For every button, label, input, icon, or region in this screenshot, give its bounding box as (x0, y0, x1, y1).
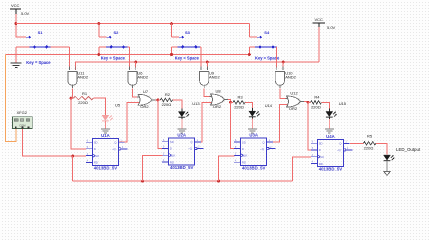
svg-text:RD: RD (170, 160, 174, 164)
instrument XFG2 (13, 117, 33, 129)
wire CLK down to bottom rail (72, 156, 74, 181)
wire bottom clock rail (73, 180, 293, 182)
OR gate U8 (211, 94, 225, 105)
flip-flop U3A 4013BD (234, 138, 276, 165)
svg-text:AND2: AND2 (77, 75, 88, 80)
wire rail C to AND input 2 (U9) (206, 61, 209, 64)
wire CLK riser U3A (217, 180, 220, 183)
svg-text:VCC: VCC (315, 17, 324, 22)
wire rail A top (16, 23, 250, 25)
wire D feed stage 3 (231, 102, 236, 148)
svg-text:U12: U12 (290, 91, 298, 96)
svg-text:RD: RD (94, 161, 98, 165)
wire S3 throw to AND input (200, 47, 202, 68)
resistor R5 (361, 142, 364, 144)
flip-flop U4A 4013BD (311, 140, 353, 167)
svg-text:Q: Q (339, 142, 342, 146)
AND gate U10 (275, 72, 284, 86)
wire LED U13 to ground (181, 117, 183, 119)
svg-text:Q: Q (262, 140, 265, 144)
switch S2 (97, 22, 100, 25)
wire CLK riser U4A (292, 157, 311, 181)
svg-text:OR2: OR2 (140, 104, 149, 109)
wire LED to arrow ground (386, 161, 388, 172)
svg-text:U1A: U1A (101, 133, 110, 138)
AND gate U6 (128, 72, 137, 86)
svg-text:S4: S4 (264, 30, 270, 35)
svg-text:D: D (94, 147, 96, 151)
wire U4A Q to R5 (350, 142, 361, 144)
LED U5 (lit) (102, 115, 113, 121)
resistor R4 (308, 101, 311, 103)
svg-text:Key = Space: Key = Space (101, 55, 126, 60)
resistor R1 (71, 97, 74, 99)
svg-text:SD: SD (170, 140, 174, 144)
wire Q feedback to OR input 2 (U7) (118, 103, 140, 143)
wire LED U15 to ground (328, 117, 330, 119)
wire VCC right drop (318, 27, 320, 62)
wire AND 3 output to OR input 1 (203, 84, 205, 88)
svg-text:~Q: ~Q (188, 147, 193, 151)
wire rail C to AND input 2 (U10) (282, 61, 285, 64)
svg-text:SD: SD (94, 141, 98, 145)
wire OR U8 output (225, 99, 229, 101)
wire D feed stage 2 (158, 100, 163, 148)
svg-text:AND2: AND2 (137, 75, 148, 80)
wire U11 output (72, 84, 74, 88)
svg-text:~Q: ~Q (112, 147, 117, 151)
wire rail B (switch poles) (5, 54, 249, 56)
switch S4 (248, 24, 250, 38)
flip-flop U2A 4013BD (162, 138, 204, 165)
switch S3 (170, 22, 173, 25)
wire R3 to LED U14 (248, 102, 253, 108)
svg-text:D: D (319, 148, 321, 152)
wire Q feedback to OR input 2 (U8) (195, 102, 213, 141)
svg-text:SD: SD (242, 140, 246, 144)
wire S4 throw to AND input (276, 47, 278, 68)
wire S4 pole to rail B (248, 47, 250, 55)
wire D feed U1A (71, 98, 86, 149)
wire OR U12 output (301, 101, 305, 103)
svg-text:Key = Space: Key = Space (175, 55, 200, 60)
junction rail A start (14, 22, 17, 25)
svg-text:U2A: U2A (177, 132, 186, 137)
svg-text:220Ω: 220Ω (364, 146, 374, 151)
svg-text:R2: R2 (165, 92, 171, 97)
node A (R1 left junction) (70, 97, 73, 100)
switch S1 (16, 36, 27, 38)
svg-text:5.0V: 5.0V (21, 11, 30, 16)
svg-text:R4: R4 (314, 95, 320, 100)
wire rail C (enable) (76, 62, 319, 70)
resistor R3 (231, 101, 234, 103)
svg-text:SD: SD (319, 142, 323, 146)
svg-text:AND2: AND2 (285, 75, 296, 80)
wire R1 to LED U5 (96, 98, 105, 115)
wire S1 throw to AND input (68, 47, 70, 68)
svg-text:Q: Q (190, 140, 193, 144)
svg-text:U13: U13 (192, 101, 200, 106)
wire CLK riser U2A (141, 180, 144, 183)
LED U15 (326, 112, 337, 118)
svg-text:220Ω: 220Ω (78, 100, 88, 105)
svg-text:D: D (170, 147, 172, 151)
wire AND 4 output to OR input 1 (279, 84, 281, 88)
ground S1 (11, 63, 22, 67)
svg-text:Key = Space: Key = Space (26, 60, 51, 65)
svg-text:U8: U8 (215, 89, 221, 94)
svg-text:R1: R1 (82, 91, 88, 96)
wire XFG2 plus to rail B (orange) (5, 55, 16, 142)
node D-feed junction (stage 2) (156, 98, 159, 101)
ground (stage 2 LED) (177, 128, 186, 130)
svg-text:4013BD_5V: 4013BD_5V (170, 165, 194, 170)
svg-text:4013BD_5V: 4013BD_5V (242, 165, 266, 170)
svg-text:XFG2: XFG2 (17, 110, 28, 115)
node D-feed junction (stage 3) (229, 101, 232, 104)
ground (stage 1 LED) (101, 128, 110, 130)
wire AND 2 output to OR input 1 (132, 84, 134, 88)
svg-text:D: D (242, 147, 244, 151)
svg-text:U15: U15 (339, 101, 347, 106)
svg-text:LED_Output: LED_Output (396, 147, 421, 152)
wire S2 throw to AND input (128, 47, 130, 68)
wire XFG2 output to U1A CLK (22, 129, 86, 156)
wire S1 pole to ground (15, 47, 17, 63)
svg-text:220Ω: 220Ω (234, 104, 244, 109)
svg-text:220Ω: 220Ω (162, 102, 172, 107)
svg-text:R3: R3 (237, 95, 243, 100)
wire D feed stage 4 (308, 102, 312, 150)
svg-text:S3: S3 (185, 30, 191, 35)
LED output diode (384, 155, 395, 161)
svg-text:RD: RD (319, 162, 323, 166)
svg-text:R5: R5 (367, 134, 373, 139)
svg-text:U4A: U4A (326, 134, 335, 139)
wire Q feedback to OR input 2 (U12) (267, 104, 289, 142)
svg-text:S2: S2 (114, 30, 120, 35)
wire VCC left drop (15, 14, 17, 37)
ground (stage 4 LED) (325, 128, 334, 130)
wire LED U14 to ground (251, 117, 253, 119)
svg-text:VCC: VCC (11, 3, 20, 8)
resistor R2 (158, 99, 161, 101)
AND gate U9 (200, 72, 209, 86)
wire rail C to AND input 2 (U6) (134, 61, 137, 64)
ground (stage 3 LED) (248, 128, 257, 130)
wire rail C to AND input 2 (U11) (75, 62, 77, 68)
wire S3 pole to rail B (171, 47, 173, 55)
svg-text:U7: U7 (143, 89, 149, 94)
svg-text:5.0V: 5.0V (327, 25, 336, 30)
svg-text:U3A: U3A (249, 133, 258, 138)
LED U13 (178, 112, 189, 118)
node D-feed junction (stage 4) (307, 101, 310, 104)
svg-text:RD: RD (242, 161, 246, 165)
flip-flop U1A 4013BD (86, 138, 128, 165)
svg-text:AND2: AND2 (209, 75, 220, 80)
wire LED U5 to ground (104, 121, 106, 128)
junction CLK at U1A (71, 155, 74, 158)
wire S2 pole to rail B (98, 47, 100, 55)
svg-text:S1: S1 (38, 30, 44, 35)
svg-text:~Q: ~Q (337, 148, 342, 152)
wire R4 to LED U15 (324, 102, 330, 108)
svg-text:U14: U14 (265, 103, 273, 108)
svg-text:OR2: OR2 (213, 104, 222, 109)
svg-text:~Q: ~Q (260, 147, 265, 151)
wire R2 to LED U13 (175, 100, 182, 109)
svg-text:OR2: OR2 (289, 106, 298, 111)
OR gate U7 (138, 94, 152, 105)
OR gate U12 (287, 96, 301, 107)
svg-text:Q: Q (114, 141, 117, 145)
wire R5 to LED_Output LED (378, 143, 387, 154)
svg-text:4013BD_5V: 4013BD_5V (319, 167, 343, 172)
svg-text:4013BD_5V: 4013BD_5V (94, 166, 118, 171)
svg-text:220Ω: 220Ω (311, 104, 321, 109)
LED U14 (249, 111, 260, 117)
AND gate U11 (68, 72, 77, 86)
svg-text:U5: U5 (115, 102, 121, 107)
wire OR U7 output (152, 99, 156, 101)
ground arrow (output) (384, 171, 391, 175)
